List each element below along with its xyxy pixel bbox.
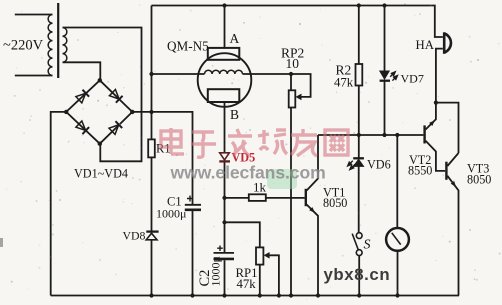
svg-text:8050: 8050 xyxy=(467,173,491,187)
svg-text:VD6: VD6 xyxy=(367,158,391,172)
svg-text:S: S xyxy=(364,238,371,253)
svg-text:HA: HA xyxy=(416,38,435,52)
svg-text:VD7: VD7 xyxy=(401,72,424,86)
svg-text:10: 10 xyxy=(286,56,300,71)
svg-text:QM-N5: QM-N5 xyxy=(167,39,209,54)
svg-text:VD8: VD8 xyxy=(123,229,146,243)
svg-text:VD1~VD4: VD1~VD4 xyxy=(74,167,128,181)
svg-text:A: A xyxy=(230,31,240,46)
svg-text:B: B xyxy=(230,107,239,122)
svg-text:1000μ: 1000μ xyxy=(156,207,186,221)
svg-text:8050: 8050 xyxy=(323,196,347,210)
svg-text:1000μ: 1000μ xyxy=(209,256,223,286)
svg-text:www.elecfans.com: www.elecfans.com xyxy=(170,163,326,183)
svg-text:ybx8.cn: ybx8.cn xyxy=(324,265,391,284)
svg-text:47k: 47k xyxy=(334,76,354,90)
svg-text:~220V: ~220V xyxy=(3,38,44,54)
svg-text:8550: 8550 xyxy=(408,164,432,178)
